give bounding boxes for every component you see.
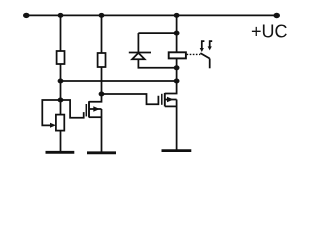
relay coil K1 [169, 52, 186, 58]
diode D1 triangle [132, 53, 145, 59]
node junction Q1 drain [99, 92, 105, 97]
mechanical link dashed [187, 53, 201, 55]
ground G2 [87, 151, 116, 154]
transistor Q1 source jog [89, 116, 102, 118]
ground G1 [46, 151, 75, 154]
resistor R1 [57, 51, 65, 64]
resistor R2 [98, 53, 106, 67]
wire R1 bottom lead [60, 64, 62, 81]
wire Q1 source to ground [101, 109, 103, 153]
transistor Q1 body tie with arrow [89, 108, 102, 110]
node right supply terminal [273, 13, 280, 18]
transistor Q2 gate bar [161, 94, 163, 105]
transistor Q1 gate bar [85, 104, 87, 116]
transistor Q2 drain jog [165, 81, 177, 94]
wire mid rail [61, 80, 177, 82]
node junction R1 bottom rail left [58, 79, 64, 84]
node junction trimmer top [58, 98, 64, 103]
wire trimmer bottom lead [60, 131, 62, 152]
switch S1 left fixed terminal [202, 41, 205, 48]
wire gate feed Q2 [102, 94, 159, 104]
wire R2 bottom lead (crosses mid rail) [101, 67, 103, 94]
wire zener bottom lead [138, 59, 176, 68]
node junction top rail at R1 [58, 13, 64, 18]
wire relay coil bottom lead [176, 58, 178, 81]
transistor Q1 drain jog [89, 94, 102, 102]
transistor Q2 channel bar [164, 93, 166, 106]
diode D1 cathode bar [129, 52, 151, 54]
wire gate feed Q1 [61, 100, 84, 118]
wire switch lower terminal [209, 59, 211, 69]
node junction upper relay node [174, 31, 180, 36]
node junction zener/coil bottom [174, 65, 180, 70]
transistor Q2 body tie with arrow [165, 99, 177, 101]
wire zener top lead [137, 33, 139, 52]
ground G3 [162, 149, 192, 152]
transistor Q2 source jog [165, 105, 177, 107]
wire Q2 source to ground [176, 100, 178, 151]
node junction mid rail right [174, 79, 180, 84]
switch S1 blade [200, 53, 209, 58]
node left supply terminal [23, 13, 30, 18]
wire R1 top lead [60, 15, 62, 51]
transistor Q1 channel bar [88, 101, 90, 117]
trimmer wiper arrowhead [50, 123, 56, 128]
svg-text:+UC: +UC [251, 22, 288, 42]
wire relay column from top rail [176, 15, 178, 52]
wire top supply rail [26, 14, 276, 16]
wire R2 top lead [101, 15, 103, 53]
node junction top rail at relay column [174, 13, 180, 18]
wire trimmer wiper loop [42, 100, 60, 125]
wire upper branch rail to zener [138, 32, 176, 34]
resistor R3 trimmer body [56, 115, 64, 131]
wire trimmer column upper [60, 81, 62, 115]
switch S1 right fixed terminal [210, 41, 213, 47]
node junction top rail at R2 [99, 13, 105, 18]
